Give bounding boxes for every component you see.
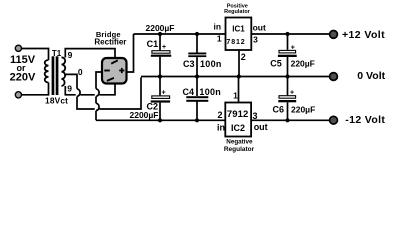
junction node C4/-rail: [195, 118, 199, 122]
junction node C1-C2/0V rail: [158, 74, 162, 78]
svg-text:3: 3: [252, 111, 257, 121]
capacitor C1 plates: [152, 51, 170, 54]
wire hop: minus vertical over center-tap wire: [96, 103, 99, 111]
svg-text:+12 Volt: +12 Volt: [342, 29, 385, 41]
svg-text:Negative: Negative: [226, 138, 253, 145]
wire: positive rail from bridge to IC1 in: [134, 33, 226, 35]
svg-text:220V: 220V: [10, 71, 36, 83]
junction node C5-C6/0V rail: [285, 74, 289, 78]
capacitor C2 plates: [152, 96, 170, 99]
svg-text:IC1: IC1: [232, 25, 245, 34]
junction node C6/-rail: [285, 118, 289, 122]
svg-text:2: 2: [241, 52, 246, 62]
svg-text:out: out: [254, 122, 268, 132]
wire: AC input bottom terminal to transformer primary bottom: [19, 83, 49, 95]
svg-text:C1: C1: [147, 39, 159, 49]
svg-text:+: +: [290, 90, 294, 97]
wire: AC input top terminal to transformer primary top: [19, 49, 49, 61]
output terminal +12V: [330, 31, 338, 39]
svg-text:2: 2: [217, 110, 222, 120]
AC input terminal bottom: [15, 92, 21, 98]
output terminal 0V: [330, 73, 338, 81]
svg-text:2200µF: 2200µF: [146, 23, 175, 33]
junction node IC pins/0V rail: [237, 74, 241, 78]
wire: bridge plus output up to positive rail: [126, 34, 134, 72]
capacitor C6 plates: [279, 96, 296, 99]
capacitor C4 leads: [196, 77, 198, 121]
svg-text:Regulator: Regulator: [224, 146, 255, 153]
wire: 0V rail: [141, 76, 330, 78]
bridge rectifier plus mark: [119, 68, 124, 73]
svg-text:C3: C3: [183, 59, 195, 69]
svg-text:C5: C5: [270, 58, 282, 68]
bridge rectifier diode stroke bottom: [107, 78, 114, 81]
wire: secondary top (9) to bridge AC top: [65, 49, 115, 58]
output terminal -12V: [330, 116, 338, 124]
svg-text:9: 9: [68, 50, 73, 60]
svg-text:T1: T1: [52, 49, 62, 58]
bridge rectifier minus mark: [104, 70, 110, 72]
svg-text:7812: 7812: [226, 39, 245, 46]
junction node C2/-rail: [158, 118, 162, 122]
capacitor C5 plates: [279, 50, 296, 53]
wire: center tap (0) down under bridge then up to 0V rail: [64, 74, 141, 109]
wire: bridge minus output down to negative rail: [96, 72, 102, 120]
svg-text:out: out: [253, 23, 266, 33]
IC1 7812 box: [226, 18, 252, 51]
capacitor C6 leads: [287, 77, 289, 121]
junction node C1/+rail: [158, 32, 162, 36]
wire: IC1 out to +12V terminal: [252, 33, 330, 35]
junction node C3-C4/0V rail: [195, 74, 199, 78]
wire: IC1 pin 2 to 0V rail: [238, 50, 240, 77]
svg-text:220µF: 220µF: [291, 105, 315, 115]
svg-text:220µF: 220µF: [291, 59, 315, 69]
wire: negative rail from bridge to IC2 in: [96, 119, 226, 121]
wire: IC2 out to -12V terminal: [252, 119, 330, 121]
IC2 7912 box: [225, 103, 251, 137]
svg-text:-12 Volt: -12 Volt: [345, 114, 385, 126]
wire hop: minus vertical over secondary wire: [96, 89, 99, 97]
svg-text:1: 1: [233, 91, 238, 101]
svg-text:+: +: [162, 44, 166, 51]
svg-text:7912: 7912: [227, 109, 249, 120]
capacitor C5 leads: [287, 34, 289, 77]
capacitor C3 leads: [196, 34, 198, 77]
capacitor C3 plates: [188, 53, 206, 55]
svg-text:1: 1: [217, 34, 222, 44]
svg-text:IC2: IC2: [231, 123, 245, 133]
svg-text:in: in: [214, 22, 222, 32]
capacitor C4 plates: [186, 96, 208, 98]
svg-text:C6: C6: [273, 104, 285, 114]
svg-text:3: 3: [253, 34, 258, 44]
wire: IC2 pin 1 to 0V rail: [238, 77, 240, 103]
AC input terminal top: [15, 45, 21, 51]
svg-text:0: 0: [78, 67, 83, 77]
svg-text:in: in: [217, 123, 225, 133]
transformer T1 core: [52, 56, 55, 95]
transformer T1 secondary winding: [62, 57, 66, 86]
svg-text:100n: 100n: [199, 87, 221, 97]
transformer T1 primary winding: [45, 60, 49, 83]
junction node C3/+rail: [195, 32, 199, 36]
svg-text:Regulator: Regulator: [224, 9, 251, 15]
svg-text:2200µF: 2200µF: [130, 110, 159, 120]
svg-text:Rectifier: Rectifier: [94, 38, 126, 47]
capacitor C2 leads: [159, 77, 161, 121]
svg-text:100n: 100n: [200, 59, 222, 69]
svg-text:+: +: [161, 90, 165, 97]
junction node C5/+rail: [285, 32, 289, 36]
bridge rectifier diode stroke top: [111, 60, 118, 63]
bridge rectifier body: [102, 58, 127, 84]
svg-text:0 Volt: 0 Volt: [357, 70, 385, 82]
svg-text:C4: C4: [183, 87, 195, 97]
svg-text:+: +: [291, 45, 295, 52]
capacitor C1 leads: [159, 34, 161, 77]
wire hop: center-tap vertical over secondary wire: [77, 89, 80, 97]
svg-text:18Vct: 18Vct: [45, 96, 68, 106]
wire: secondary bottom (9) to bridge AC bottom, broken at wire hops: [65, 83, 115, 95]
svg-text:9: 9: [67, 83, 72, 93]
